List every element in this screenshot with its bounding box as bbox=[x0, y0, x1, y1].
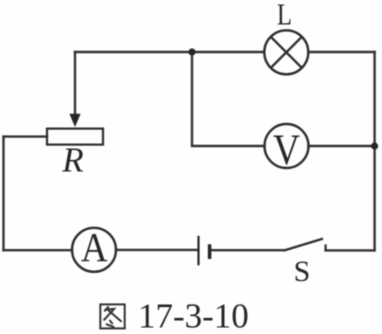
lamp L bbox=[264, 30, 308, 74]
caption 图 (drawn glyph) bbox=[100, 304, 124, 328]
wire voltmeter-to-right bbox=[309, 145, 375, 147]
wire ammeter to battery bbox=[116, 249, 197, 251]
switch right contact tick bbox=[325, 244, 327, 250]
svg-text:17-3-10: 17-3-10 bbox=[138, 297, 249, 334]
battery short plate bbox=[208, 244, 212, 259]
svg-text:S: S bbox=[294, 255, 311, 288]
wire switch to bottom-right corner bbox=[326, 249, 375, 251]
battery long plate bbox=[197, 236, 199, 265]
switch blade bbox=[284, 239, 323, 251]
svg-text:V: V bbox=[273, 125, 300, 173]
wire rheostat left lead bbox=[4, 135, 48, 137]
wire left vertical bbox=[2, 137, 4, 251]
switch S bbox=[284, 239, 326, 251]
svg-text:A: A bbox=[81, 225, 108, 270]
wire right vertical bbox=[373, 52, 375, 250]
node junction dot top bbox=[188, 48, 195, 55]
wire rheostat wiper lead (vertical from top wire) bbox=[74, 52, 76, 115]
wiper arrowhead bbox=[69, 114, 80, 127]
wire top-left horizontal bbox=[75, 51, 264, 53]
wire battery to switch bbox=[211, 249, 284, 251]
node junction dot right bbox=[371, 142, 378, 149]
wire top-right horizontal bbox=[308, 51, 374, 53]
voltmeter V bbox=[265, 124, 309, 168]
label L bbox=[277, 0, 292, 32]
battery cell bbox=[199, 236, 210, 265]
svg-text:R: R bbox=[61, 141, 83, 180]
rheostat R bbox=[47, 114, 103, 145]
svg-text:L: L bbox=[277, 0, 292, 32]
ammeter A bbox=[72, 228, 116, 272]
wire junction-to-voltmeter (vertical + horizontal) bbox=[192, 52, 265, 146]
wire bottom-left to ammeter bbox=[4, 249, 73, 251]
